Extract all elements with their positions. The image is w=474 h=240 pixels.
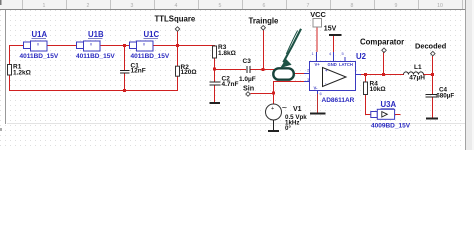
probe arrow (280, 29, 301, 69)
svg-text:10kΩ: 10kΩ (370, 86, 386, 93)
wire clamp to opamp plus input (279, 73, 306, 74)
svg-text:U2: U2 (356, 52, 367, 61)
wire jog under clamp (280, 69, 281, 74)
svg-text:4: 4 (175, 3, 178, 9)
wire C1 top drop (124, 45, 125, 70)
resistor R2 (176, 66, 180, 76)
svg-text:4011BD_15V: 4011BD_15V (20, 53, 59, 60)
frame left border (5, 10, 6, 124)
op-amp pin numbers (307, 51, 358, 96)
svg-text:LATCH: LATCH (339, 62, 353, 67)
junction C3 branch (213, 68, 216, 71)
wire C3 to clamp (250, 69, 281, 70)
junction R4 tap (364, 73, 367, 76)
wire opamp output rail (358, 74, 404, 75)
svg-text:C3: C3 (243, 58, 252, 65)
wire R4 top (365, 74, 366, 82)
svg-text:1.2kΩ: 1.2kΩ (13, 70, 31, 77)
svg-text:680µF: 680µF (436, 92, 454, 99)
svg-text:0°: 0° (285, 125, 291, 132)
svg-text:U1A: U1A (32, 30, 48, 39)
wire R1 bottom (9, 75, 10, 91)
wire R3 to C2 (214, 58, 215, 82)
wire V1 top (273, 93, 274, 104)
capacitor C4 (426, 94, 438, 97)
svg-text:Decoded: Decoded (415, 42, 447, 51)
svg-text:4009BD_15V: 4009BD_15V (371, 122, 411, 129)
wire minus input vertical (273, 81, 274, 94)
svg-text:U1B: U1B (88, 30, 104, 39)
svg-text:2: 2 (87, 3, 90, 9)
svg-text:GND: GND (328, 62, 337, 67)
wire opamp V- down (317, 94, 318, 113)
wire C2 to ground (214, 85, 215, 102)
svg-text:12nF: 12nF (131, 68, 146, 75)
wire Sin to junction (251, 93, 274, 94)
svg-text:1.8kΩ: 1.8kΩ (218, 50, 236, 57)
svg-text:U1C: U1C (144, 30, 160, 39)
svg-text:47µH: 47µH (409, 75, 425, 82)
wire C4 bottom (432, 97, 433, 118)
capacitor C2 (210, 82, 221, 86)
svg-text:4011BD_15V: 4011BD_15V (76, 53, 115, 60)
wire minus input horizontal (273, 81, 306, 82)
NAND gate U1B (77, 41, 101, 51)
svg-text:10: 10 (437, 3, 443, 9)
resistor R4 (364, 82, 368, 95)
junction Sin V1 (272, 92, 275, 95)
svg-text:4011BD_15V: 4011BD_15V (131, 53, 170, 60)
svg-text:4.7nF: 4.7nF (222, 81, 239, 88)
svg-text:5: 5 (219, 3, 222, 9)
resistor R3 (213, 46, 217, 58)
NAND gate U1A (24, 41, 48, 51)
NAND gate U1C (130, 41, 154, 51)
ground below C4 (426, 118, 438, 120)
wire bottom rail (9, 90, 178, 91)
svg-text:Traingle: Traingle (249, 17, 280, 26)
wire gnd-bar to GND pin (333, 35, 334, 52)
op-amp U2 (304, 52, 361, 94)
svg-text:7: 7 (307, 3, 310, 9)
svg-text:3: 3 (131, 3, 134, 9)
svg-text:V1: V1 (293, 106, 302, 113)
AC source V1 (266, 103, 288, 120)
connector Decoded (431, 51, 436, 56)
svg-text:L1: L1 (414, 64, 422, 71)
svg-text:AD8611AR: AD8611AR (322, 97, 355, 104)
wire R2 bottom (177, 75, 178, 91)
ground bar above GND pin (329, 34, 342, 36)
ground below op-amp (310, 113, 326, 115)
svg-text:8: 8 (351, 3, 354, 9)
svg-text:VCC: VCC (310, 10, 326, 19)
svg-text:Comparator: Comparator (360, 37, 404, 46)
resistor R1 (8, 65, 12, 76)
sheet background (0, 0, 474, 150)
connector Comparator (382, 48, 387, 53)
ruler band top (0, 0, 466, 10)
svg-text:V-: V- (314, 86, 319, 91)
connector Sin (246, 92, 251, 97)
junction Traingle tap (262, 68, 265, 71)
wire R4 bottom to U3A (365, 94, 366, 115)
capacitor C1 (120, 70, 130, 74)
svg-text:V+: V+ (315, 62, 321, 67)
capacitor C3 (246, 66, 250, 73)
wire U3A output stub (395, 114, 401, 115)
wire left drop to R1 (9, 45, 10, 65)
svg-text:6: 6 (263, 3, 266, 9)
junction C1 bottom (123, 89, 126, 92)
svg-text:Sin: Sin (243, 84, 254, 93)
inductor L1 (404, 72, 424, 75)
svg-text:1: 1 (43, 3, 46, 9)
junction C1 top (123, 44, 126, 47)
frame right border and side band (465, 0, 466, 150)
wire C4 top (432, 74, 433, 95)
op-amp port labels (314, 62, 353, 91)
current clamp oval (273, 68, 294, 79)
wire R3 top (214, 45, 215, 47)
wire VCC down (317, 27, 318, 52)
ground below C2 (210, 102, 221, 104)
svg-text:15V: 15V (324, 26, 337, 33)
svg-text:+: + (271, 106, 274, 112)
connector TTLSquare (175, 27, 180, 32)
junction TTLSquare rail (176, 44, 179, 47)
wire Comparator drop (383, 52, 384, 75)
wire Decoded drop (432, 56, 433, 75)
wire L1 to C4 junction (423, 74, 433, 75)
window corner speck (0, 0, 2, 5)
ground below V1 (273, 120, 274, 130)
svg-text:TTLSquare: TTLSquare (155, 15, 196, 24)
svg-text:120Ω: 120Ω (181, 69, 197, 76)
frame bottom border (7, 123, 466, 124)
svg-text:~: ~ (282, 103, 287, 113)
wire TTLSquare drop (177, 31, 178, 66)
buffer gate U3A (371, 109, 395, 119)
junction Comparator tap (382, 73, 385, 76)
svg-text:1.0µF: 1.0µF (239, 76, 256, 83)
svg-text:U3A: U3A (381, 100, 397, 109)
wire C3 branch left (214, 69, 246, 70)
connector Traingle (261, 26, 266, 31)
wire C1 bottom (124, 73, 125, 91)
wire top rail segments (9, 45, 214, 46)
svg-text:9: 9 (395, 3, 398, 9)
junction Decoded C4 (431, 73, 434, 76)
wire Traingle drop (263, 30, 264, 70)
